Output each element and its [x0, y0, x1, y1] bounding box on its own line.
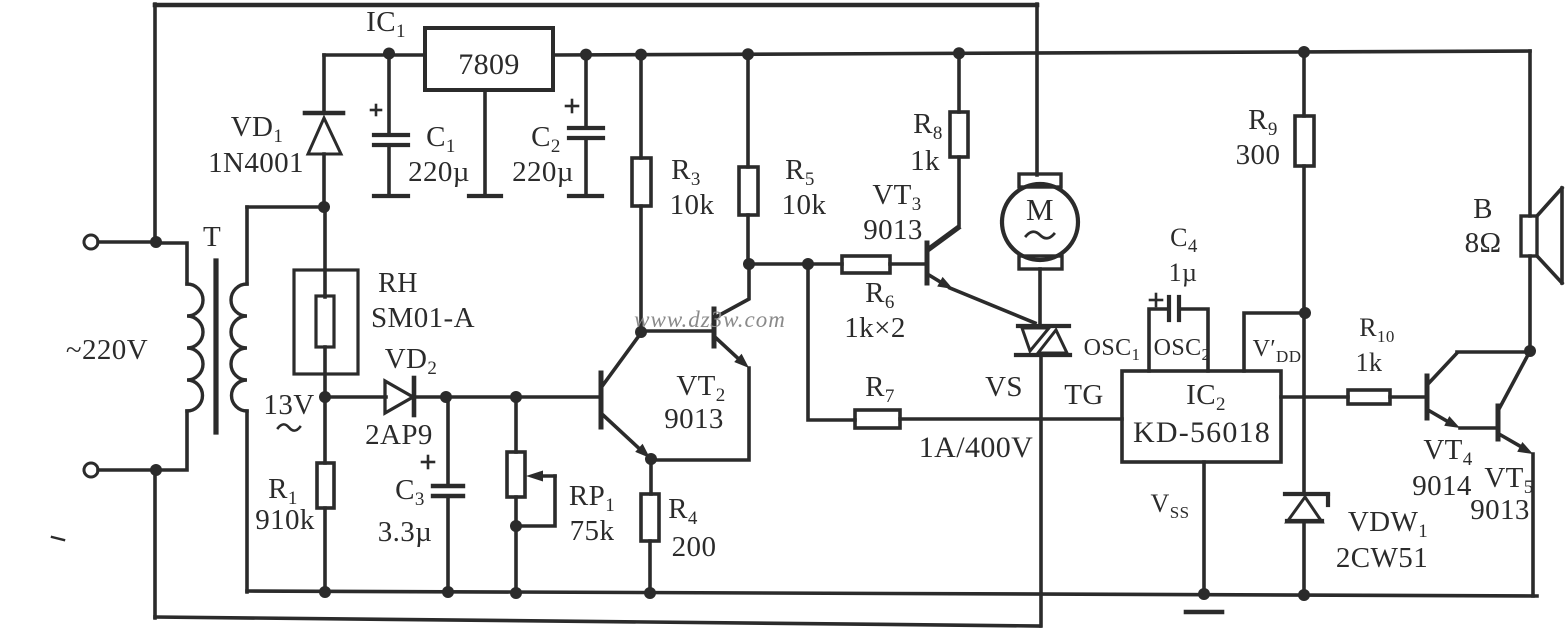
svg-text:13V: 13V: [263, 389, 314, 421]
svg-text:SM01-A: SM01-A: [371, 302, 475, 334]
svg-text:10k: 10k: [782, 189, 827, 221]
svg-text:9013: 9013: [863, 214, 923, 246]
svg-text:VS: VS: [985, 371, 1023, 403]
svg-text:220µ: 220µ: [512, 156, 574, 188]
svg-text:www.dz3w.com: www.dz3w.com: [634, 307, 786, 332]
svg-text:200: 200: [672, 531, 717, 563]
svg-text:1µ: 1µ: [1169, 258, 1198, 287]
svg-text:75k: 75k: [570, 515, 615, 547]
svg-text:9014: 9014: [1412, 470, 1472, 502]
svg-text:TG: TG: [1064, 379, 1103, 411]
svg-text:10k: 10k: [670, 189, 715, 221]
svg-text:9013: 9013: [1470, 494, 1530, 526]
svg-text:VDW1: VDW1: [1348, 506, 1428, 542]
svg-text:1k: 1k: [910, 145, 940, 177]
svg-text:2CW51: 2CW51: [1336, 542, 1428, 574]
svg-text:KD-56018: KD-56018: [1133, 416, 1271, 449]
svg-text:RH: RH: [378, 268, 418, 299]
svg-text:T: T: [203, 221, 221, 253]
svg-text:1A/400V: 1A/400V: [919, 431, 1033, 464]
svg-text:~220V: ~220V: [66, 334, 148, 366]
svg-text:300: 300: [1236, 139, 1281, 171]
svg-text:8Ω: 8Ω: [1465, 227, 1502, 259]
svg-text:7809: 7809: [458, 48, 520, 81]
svg-text:2AP9: 2AP9: [365, 419, 433, 451]
svg-text:1N4001: 1N4001: [208, 147, 304, 179]
svg-text:M: M: [1026, 192, 1054, 227]
svg-text:B: B: [1473, 193, 1493, 225]
svg-text:3.3µ: 3.3µ: [378, 516, 433, 548]
svg-text:220µ: 220µ: [408, 156, 470, 188]
svg-text:910k: 910k: [255, 504, 315, 536]
svg-text:1k: 1k: [1356, 348, 1383, 377]
svg-text:1k×2: 1k×2: [844, 312, 905, 344]
svg-text:9013: 9013: [664, 403, 724, 435]
